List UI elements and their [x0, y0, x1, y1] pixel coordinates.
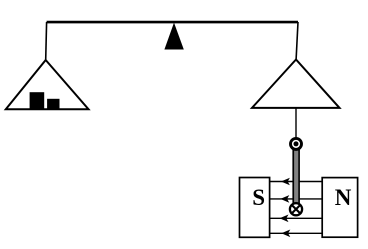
fulcrum triangle [164, 23, 183, 50]
balance beam [47, 21, 298, 24]
svg-text:N: N [335, 185, 352, 210]
conductor rod [292, 148, 300, 204]
field line 2 [270, 198, 323, 200]
field arrow 4 [281, 230, 290, 238]
current-into-page symbol [290, 203, 302, 215]
field arrow 3 [280, 215, 289, 223]
field line 1 [270, 181, 323, 183]
svg-text:S: S [252, 185, 265, 210]
pivot current-out symbol [291, 138, 302, 149]
right pan triangle [252, 60, 340, 108]
field arrow 1 [281, 178, 290, 186]
weight small [47, 99, 59, 109]
magnet N pole [322, 178, 357, 238]
field line 4 [270, 232, 323, 234]
left hanger wire [45, 22, 48, 60]
right hanger wire [296, 22, 298, 60]
suspension wire [295, 108, 297, 139]
field line 3 [270, 217, 323, 219]
field arrow 2 [280, 195, 289, 203]
magnet S pole [240, 178, 270, 238]
weight large [30, 92, 45, 109]
left pan triangle [6, 60, 89, 109]
